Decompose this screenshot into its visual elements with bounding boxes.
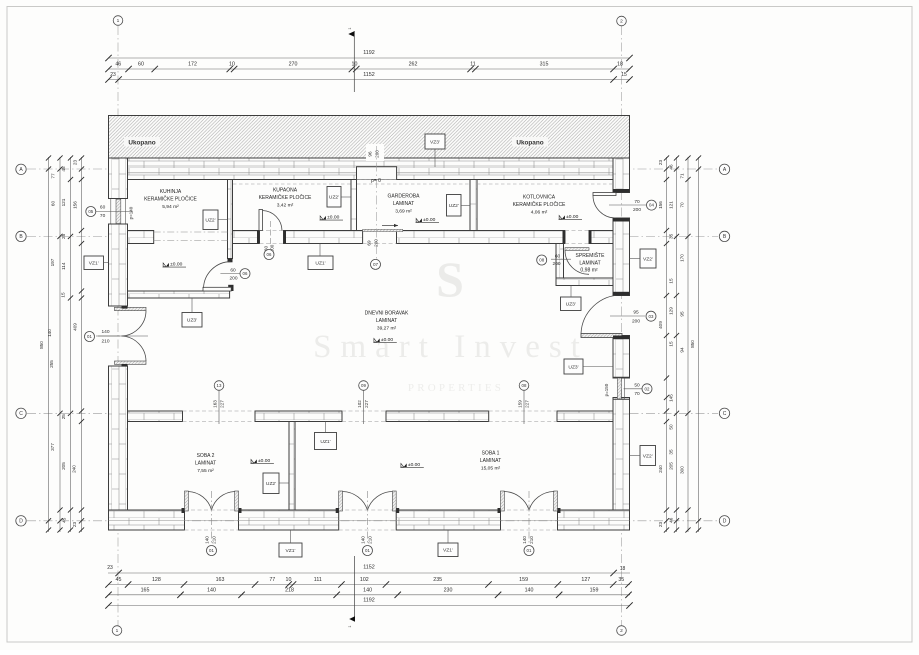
svg-text:D: D xyxy=(723,519,727,525)
svg-text:210: 210 xyxy=(368,536,373,544)
svg-text:145: 145 xyxy=(669,394,674,402)
svg-text:46: 46 xyxy=(115,62,121,68)
svg-text:1192: 1192 xyxy=(363,50,375,56)
svg-text:UZ1': UZ1' xyxy=(315,261,325,267)
svg-text:Ukopano: Ukopano xyxy=(128,140,155,147)
svg-text:127: 127 xyxy=(581,577,590,583)
svg-text:08: 08 xyxy=(522,383,527,388)
svg-text:163: 163 xyxy=(216,577,225,583)
svg-text:409: 409 xyxy=(658,321,663,329)
svg-text:15: 15 xyxy=(61,292,66,298)
svg-text:210: 210 xyxy=(529,536,534,544)
svg-text:205: 205 xyxy=(669,462,674,470)
svg-text:39,27 m²: 39,27 m² xyxy=(377,326,397,332)
svg-text:SPREMIŠTE: SPREMIŠTE xyxy=(576,252,606,259)
svg-text:06: 06 xyxy=(243,271,248,276)
svg-text:03: 03 xyxy=(649,314,654,319)
svg-text:200: 200 xyxy=(552,261,560,267)
svg-text:50: 50 xyxy=(634,382,640,388)
svg-text:70: 70 xyxy=(100,213,106,219)
svg-text:200: 200 xyxy=(374,239,379,247)
svg-text:LAMINAT: LAMINAT xyxy=(579,261,600,267)
svg-text:SOBA 1: SOBA 1 xyxy=(482,451,500,457)
svg-text:230: 230 xyxy=(444,587,453,593)
svg-text:227: 227 xyxy=(525,400,530,408)
svg-text:D: D xyxy=(19,519,23,525)
svg-text:VZ1': VZ1' xyxy=(286,548,296,554)
svg-text:p=150: p=150 xyxy=(604,383,609,396)
svg-text:1192: 1192 xyxy=(363,598,375,604)
svg-text:KOTLOVNICA: KOTLOVNICA xyxy=(523,195,556,201)
svg-text:23: 23 xyxy=(110,72,116,78)
svg-text:111: 111 xyxy=(314,577,322,583)
svg-text:240: 240 xyxy=(658,465,663,473)
svg-text:70: 70 xyxy=(680,202,685,208)
svg-text:121: 121 xyxy=(669,201,674,209)
svg-text:4,06 m²: 4,06 m² xyxy=(531,210,548,216)
svg-text:UZ3': UZ3' xyxy=(568,364,578,370)
svg-text:LAMINAT: LAMINAT xyxy=(393,201,414,207)
svg-text:159: 159 xyxy=(590,587,599,593)
svg-text:01: 01 xyxy=(87,334,92,339)
svg-text:95: 95 xyxy=(633,310,639,316)
svg-text:2: 2 xyxy=(620,19,623,25)
svg-text:50: 50 xyxy=(669,424,674,430)
svg-text:46: 46 xyxy=(669,517,674,523)
svg-text:1: 1 xyxy=(348,625,352,627)
svg-text:77: 77 xyxy=(269,577,275,583)
svg-text:VZ1': VZ1' xyxy=(89,261,99,267)
svg-text:129: 129 xyxy=(669,307,674,315)
svg-text:DNEVNI BORAVAK: DNEVNI BORAVAK xyxy=(365,311,409,317)
svg-text:1152: 1152 xyxy=(363,565,375,571)
svg-text:45: 45 xyxy=(61,166,66,172)
svg-text:140: 140 xyxy=(207,587,216,593)
svg-text:200: 200 xyxy=(375,150,380,158)
svg-text:23: 23 xyxy=(107,565,113,571)
svg-text:23: 23 xyxy=(658,160,663,166)
svg-text:PROPERTIES: PROPERTIES xyxy=(408,382,504,394)
svg-text:23: 23 xyxy=(73,160,78,166)
svg-text:200: 200 xyxy=(229,276,237,282)
svg-text:156: 156 xyxy=(73,201,78,209)
svg-text:140: 140 xyxy=(47,329,52,337)
svg-text:11: 11 xyxy=(470,62,476,68)
svg-text:±0.00: ±0.00 xyxy=(408,462,420,468)
svg-text:UZ2': UZ2' xyxy=(449,203,459,209)
svg-text:UZ2': UZ2' xyxy=(266,481,276,487)
svg-text:02: 02 xyxy=(645,386,650,391)
svg-text:10: 10 xyxy=(286,577,292,583)
svg-text:UZ2': UZ2' xyxy=(205,218,215,224)
svg-text:210: 210 xyxy=(212,536,217,544)
svg-text:25: 25 xyxy=(61,414,66,420)
svg-text:210: 210 xyxy=(101,339,109,345)
svg-text:18: 18 xyxy=(617,62,623,68)
svg-text:S: S xyxy=(436,251,464,307)
svg-text:Ukopano: Ukopano xyxy=(516,140,543,147)
svg-text:UZ3': UZ3' xyxy=(187,318,197,324)
svg-text:01: 01 xyxy=(209,548,214,553)
svg-text:140: 140 xyxy=(525,587,534,593)
svg-text:60: 60 xyxy=(230,268,236,274)
svg-text:±0.00: ±0.00 xyxy=(327,214,339,220)
svg-text:35: 35 xyxy=(669,233,674,239)
svg-text:159: 159 xyxy=(519,577,528,583)
svg-text:3,42 m²: 3,42 m² xyxy=(277,203,294,209)
svg-text:3,69 m²: 3,69 m² xyxy=(395,209,412,215)
svg-text:LAMINAT: LAMINAT xyxy=(376,318,397,324)
svg-text:C: C xyxy=(723,411,727,417)
svg-text:0,98 m²: 0,98 m² xyxy=(580,268,598,274)
svg-text:255: 255 xyxy=(49,360,54,368)
svg-text:±0.00: ±0.00 xyxy=(258,458,270,464)
svg-text:409: 409 xyxy=(72,323,77,331)
svg-text:09: 09 xyxy=(361,383,366,388)
svg-text:121: 121 xyxy=(61,198,66,206)
svg-text:102: 102 xyxy=(360,577,369,583)
svg-text:60: 60 xyxy=(51,201,56,207)
svg-text:235: 235 xyxy=(433,577,442,583)
svg-text:114: 114 xyxy=(61,262,66,270)
svg-text:70: 70 xyxy=(634,391,640,397)
svg-text:KUPAONA: KUPAONA xyxy=(273,188,298,194)
svg-text:172: 172 xyxy=(188,62,197,68)
svg-text:163: 163 xyxy=(212,400,217,408)
svg-text:71: 71 xyxy=(680,173,685,179)
svg-text:10: 10 xyxy=(229,62,235,68)
svg-text:140: 140 xyxy=(522,536,527,544)
svg-text:23: 23 xyxy=(658,522,663,528)
svg-text:KERAMIČKE PLOČICE: KERAMIČKE PLOČICE xyxy=(513,201,566,208)
svg-text:96: 96 xyxy=(368,151,373,157)
svg-text:C: C xyxy=(19,411,23,417)
svg-text:170: 170 xyxy=(680,254,685,262)
svg-text:262: 262 xyxy=(409,62,418,68)
svg-text:1152: 1152 xyxy=(363,72,375,78)
svg-text:60: 60 xyxy=(555,254,561,260)
svg-text:35: 35 xyxy=(618,577,624,583)
svg-text:140: 140 xyxy=(205,536,210,544)
svg-text:LAMINAT: LAMINAT xyxy=(195,461,216,467)
svg-text:06: 06 xyxy=(267,252,272,257)
svg-text:±0.00: ±0.00 xyxy=(566,214,578,220)
svg-text:Smart Invest: Smart Invest xyxy=(313,329,589,365)
svg-text:77: 77 xyxy=(51,173,56,179)
svg-text:1: 1 xyxy=(117,18,120,24)
svg-text:18: 18 xyxy=(620,566,626,572)
svg-text:LAMINAT: LAMINAT xyxy=(480,458,501,464)
svg-text:VZ2': VZ2' xyxy=(643,453,653,459)
svg-text:23: 23 xyxy=(72,522,77,528)
svg-text:VZ3': VZ3' xyxy=(430,139,440,145)
svg-text:60: 60 xyxy=(138,62,144,68)
svg-text:01: 01 xyxy=(527,548,532,553)
svg-text:227: 227 xyxy=(220,400,225,408)
svg-text:60: 60 xyxy=(100,204,106,210)
svg-text:UZ1': UZ1' xyxy=(320,439,330,445)
svg-text:102: 102 xyxy=(357,400,362,408)
svg-text:p= 0: p= 0 xyxy=(371,178,381,184)
svg-text:08: 08 xyxy=(539,258,544,263)
svg-text:5,94 m²: 5,94 m² xyxy=(162,204,179,210)
svg-text:315: 315 xyxy=(540,62,549,68)
svg-text:46: 46 xyxy=(669,164,674,170)
svg-text:VZ2': VZ2' xyxy=(643,256,653,262)
svg-text:94: 94 xyxy=(680,347,685,353)
svg-text:GARDEROBA: GARDEROBA xyxy=(388,194,421,200)
svg-text:128: 128 xyxy=(152,577,161,583)
svg-text:SOBA 2: SOBA 2 xyxy=(197,453,215,459)
svg-text:VZ1': VZ1' xyxy=(443,548,453,554)
svg-text:45: 45 xyxy=(116,577,122,583)
svg-text:197: 197 xyxy=(50,258,55,266)
svg-text:15: 15 xyxy=(621,72,627,78)
svg-text:7,55 m²: 7,55 m² xyxy=(197,468,214,474)
svg-text:140: 140 xyxy=(101,329,109,335)
svg-text:25: 25 xyxy=(61,233,66,239)
svg-text:KERAMIČKE PLOČICE: KERAMIČKE PLOČICE xyxy=(259,194,312,201)
svg-text:218: 218 xyxy=(285,587,294,593)
svg-text:05: 05 xyxy=(88,209,93,214)
svg-text:205: 205 xyxy=(61,462,66,470)
svg-text:165: 165 xyxy=(141,587,150,593)
svg-text:2: 2 xyxy=(620,628,623,634)
svg-text:KERAMIČKE PLOČICE: KERAMIČKE PLOČICE xyxy=(144,196,197,203)
svg-text:159: 159 xyxy=(517,400,522,408)
svg-text:1: 1 xyxy=(116,628,119,634)
svg-text:300: 300 xyxy=(680,466,685,474)
svg-text:±0.00: ±0.00 xyxy=(381,337,393,343)
svg-text:70: 70 xyxy=(634,199,640,205)
svg-text:UZ2': UZ2' xyxy=(329,195,339,201)
svg-text:270: 270 xyxy=(289,62,298,68)
svg-text:156: 156 xyxy=(658,201,663,209)
svg-text:13: 13 xyxy=(217,383,222,388)
svg-text:±0.00: ±0.00 xyxy=(423,217,435,223)
svg-text:35: 35 xyxy=(669,449,674,455)
svg-text:±0.00: ±0.00 xyxy=(170,261,182,267)
svg-text:UZ3': UZ3' xyxy=(566,302,576,308)
svg-text:15,05 m²: 15,05 m² xyxy=(481,466,501,472)
svg-text:15: 15 xyxy=(669,341,674,347)
svg-text:95: 95 xyxy=(680,311,685,317)
svg-text:15: 15 xyxy=(669,278,674,284)
svg-text:200: 200 xyxy=(633,207,641,213)
svg-text:p=140: p=140 xyxy=(129,206,134,219)
svg-text:07: 07 xyxy=(373,262,379,267)
svg-text:140: 140 xyxy=(363,587,372,593)
svg-text:04: 04 xyxy=(649,203,654,208)
svg-text:69: 69 xyxy=(367,240,372,246)
svg-text:850: 850 xyxy=(690,340,695,348)
svg-text:240: 240 xyxy=(71,465,76,473)
svg-text:377: 377 xyxy=(50,443,55,451)
svg-text:01: 01 xyxy=(365,548,370,553)
svg-text:200: 200 xyxy=(632,319,640,325)
svg-text:850: 850 xyxy=(39,341,44,349)
svg-text:1: 1 xyxy=(348,27,352,29)
svg-text:140: 140 xyxy=(361,536,366,544)
svg-text:45: 45 xyxy=(62,517,67,523)
svg-text:KUHINJA: KUHINJA xyxy=(160,189,182,195)
svg-text:227: 227 xyxy=(364,400,369,408)
